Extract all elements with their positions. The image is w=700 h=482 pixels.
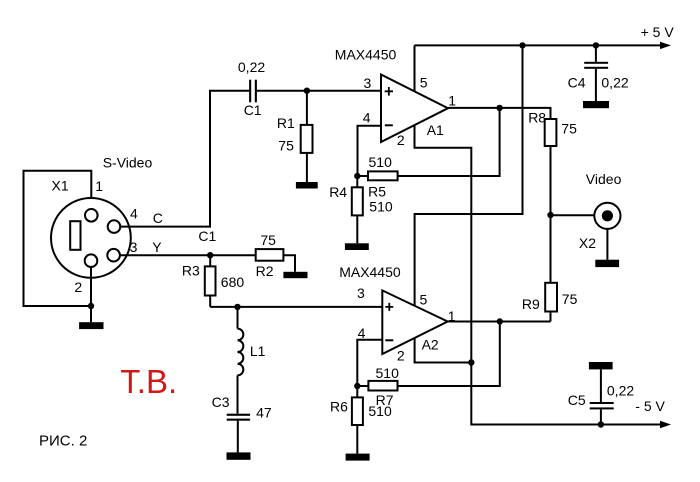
svg-text:X2: X2 <box>579 235 596 251</box>
node A1 out <box>496 105 502 111</box>
svg-text:MAX4450: MAX4450 <box>339 264 401 280</box>
svg-text:2: 2 <box>74 279 82 295</box>
svg-text:75: 75 <box>561 121 577 137</box>
wire C net: pin4 right, up to C1 <box>120 91 249 227</box>
svg-text:5: 5 <box>420 75 428 91</box>
node L1 <box>234 304 240 310</box>
resistor R3 <box>205 255 216 307</box>
wire A1 pin4 input <box>358 126 382 176</box>
connector X2 body <box>594 203 620 229</box>
svg-text:510: 510 <box>376 365 400 381</box>
wire X2 to ground <box>606 229 608 260</box>
svg-text:0,22: 0,22 <box>601 74 628 90</box>
svg-text:2: 2 <box>397 348 405 364</box>
svg-text:75: 75 <box>260 232 276 248</box>
inductor L1 <box>238 307 244 414</box>
resistor R7 <box>357 322 500 391</box>
svg-text:L1: L1 <box>250 343 266 359</box>
ground R6 <box>346 454 370 461</box>
svg-text:A2: A2 <box>422 337 439 353</box>
node pin2 rail join <box>468 359 474 365</box>
svg-text:S-Video: S-Video <box>103 155 153 171</box>
svg-text:510: 510 <box>368 403 392 419</box>
svg-text:75: 75 <box>278 138 294 154</box>
wire pin2 to ground <box>90 267 92 322</box>
X2 center pin <box>602 210 613 221</box>
wire A2 output <box>448 321 551 323</box>
svg-text:4: 4 <box>358 325 366 341</box>
svg-text:MAX4450: MAX4450 <box>335 47 397 63</box>
svg-text:C3: C3 <box>212 394 230 410</box>
resistor R5 <box>357 108 499 180</box>
ground C3 <box>227 452 251 459</box>
wire C1 to A1 + input <box>257 90 381 92</box>
svg-text:R6: R6 <box>330 399 348 415</box>
wire A1 pin2 down <box>415 125 472 362</box>
svg-text:R4: R4 <box>329 184 347 200</box>
ground C4 <box>583 101 609 108</box>
svg-text:R5: R5 <box>368 184 386 200</box>
X1 pin 3 <box>107 249 120 262</box>
svg-text:C: C <box>153 210 163 226</box>
wire A2 pin5 stub <box>414 213 416 306</box>
svg-text:+ 5 V: + 5 V <box>641 24 675 40</box>
X1 pin 4 <box>108 220 121 233</box>
svg-text:Video: Video <box>586 171 622 187</box>
svg-text:3: 3 <box>357 285 365 301</box>
svg-text:C1: C1 <box>244 102 262 118</box>
resistor R9 <box>545 215 557 322</box>
svg-text:2: 2 <box>397 132 405 148</box>
svg-text:R9: R9 <box>522 296 540 312</box>
svg-text:680: 680 <box>221 274 245 290</box>
svg-text:X1: X1 <box>52 178 69 194</box>
resistor R4 <box>352 176 363 243</box>
wire +5V to A2 pin5 <box>415 45 523 214</box>
svg-text:Y: Y <box>152 239 162 255</box>
resistor R2 <box>256 249 295 272</box>
X1 pin 2 <box>85 254 98 267</box>
svg-text:3: 3 <box>130 239 138 255</box>
node Y/R3 <box>207 252 213 258</box>
op-amp A2 <box>382 290 447 354</box>
op-amp A1 <box>381 75 448 143</box>
node X2 tap <box>547 212 553 218</box>
svg-text:75: 75 <box>562 291 578 307</box>
node C5 <box>598 421 604 427</box>
wire Y net: pin3 right to R2 <box>120 254 256 256</box>
resistor R1 <box>301 91 313 182</box>
svg-text:- 5 V: - 5 V <box>635 398 665 414</box>
svg-text:510: 510 <box>369 199 393 215</box>
svg-text:0,22: 0,22 <box>607 383 634 399</box>
A2 minus sign <box>385 339 393 341</box>
wire A2 pin4 input <box>357 340 382 386</box>
svg-text:R2: R2 <box>256 263 274 279</box>
svg-text:1: 1 <box>95 178 103 194</box>
wire A1 output <box>448 108 551 119</box>
node +5V branch <box>519 42 525 48</box>
A2 plus sign <box>385 303 393 311</box>
A1 plus sign <box>385 87 393 96</box>
wire A1 pin5 to +5V rail <box>414 45 416 91</box>
capacitor C1 <box>249 80 257 103</box>
svg-text:3: 3 <box>364 75 372 91</box>
svg-text:1: 1 <box>448 92 456 108</box>
svg-text:R8: R8 <box>528 110 546 126</box>
-5V arrow <box>660 421 671 428</box>
wire X2 <box>551 214 595 216</box>
capacitor C3 <box>227 414 250 453</box>
svg-text:РИС. 2: РИС. 2 <box>39 433 87 450</box>
svg-text:5: 5 <box>420 292 428 308</box>
node C1/R1 <box>304 88 310 94</box>
svg-text:R1: R1 <box>277 115 295 131</box>
ground X2 <box>595 260 619 267</box>
svg-text:4: 4 <box>363 110 371 126</box>
A1 minus sign <box>385 124 393 126</box>
+5V rail <box>415 44 663 46</box>
wire box around X1 <box>24 171 92 306</box>
svg-text:C5: C5 <box>568 392 586 408</box>
node X1 pin2/box junction <box>88 303 94 309</box>
ground C5 <box>589 362 613 369</box>
resistor R6 <box>352 386 363 454</box>
ground R1 <box>296 182 318 189</box>
svg-text:510: 510 <box>369 154 393 170</box>
node C4 <box>593 42 599 48</box>
svg-text:4: 4 <box>130 206 138 222</box>
node R4/R5 <box>354 173 360 179</box>
svg-text:C4: C4 <box>568 74 586 90</box>
svg-text:R3: R3 <box>182 262 200 278</box>
-5V rail <box>471 363 662 425</box>
ground R4 <box>345 243 369 250</box>
svg-text:A1: A1 <box>427 122 444 138</box>
node A2 out <box>497 318 503 324</box>
ground R2 <box>283 272 307 278</box>
ground X1 <box>79 322 103 329</box>
capacitor C4 <box>584 45 608 101</box>
connector X1 body <box>51 198 131 278</box>
svg-text:Т.В.: Т.В. <box>120 363 177 400</box>
capacitor C5 <box>590 369 614 424</box>
svg-text:0,22: 0,22 <box>238 59 265 75</box>
X1 key slot <box>70 221 80 250</box>
node R6/R7 <box>354 383 360 389</box>
wire A2 pin2 down <box>415 339 472 363</box>
resistor R8 <box>545 119 557 215</box>
X1 pin 1 <box>85 209 98 222</box>
svg-text:C1: C1 <box>198 228 216 244</box>
+5V arrow <box>660 42 671 49</box>
svg-text:47: 47 <box>256 404 272 420</box>
wire R3 to A2 + input <box>210 306 382 308</box>
